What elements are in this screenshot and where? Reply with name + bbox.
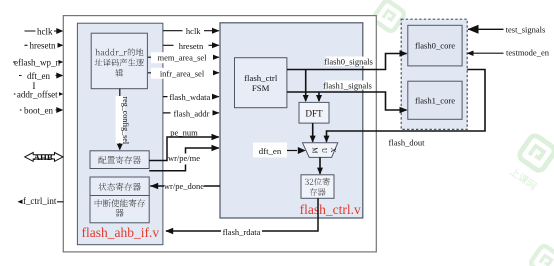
wire mem_area_sel (148, 56, 219, 58)
svg-text:flash0_core: flash0_core (415, 41, 455, 51)
watermark logo top (372, 0, 405, 33)
wire hresetn to flash_ctrl (163, 44, 219, 46)
input boot_en (20, 109, 62, 111)
svg-text:wr/pe/me: wr/pe/me (168, 153, 200, 163)
block flash_ahb_if.v (77, 23, 162, 245)
svg-text:boot_en: boot_en (24, 105, 53, 115)
svg-text:hclk: hclk (186, 26, 201, 36)
svg-text:flash_ahb_if.v: flash_ahb_if.v (81, 225, 159, 240)
svg-text:dft_en: dft_en (259, 146, 282, 156)
AHB bidirectional bus arrow (25, 153, 63, 162)
outer top-level module box (63, 16, 376, 252)
label flash_rdata (221, 227, 262, 238)
svg-text:FSM: FSM (252, 83, 270, 93)
svg-text:dft_en: dft_en (27, 71, 50, 81)
wire hclk to flash_ctrl (163, 30, 219, 32)
svg-text:infr_area_sel: infr_area_sel (160, 68, 205, 78)
label reg_config_sel (116, 96, 125, 143)
block flash1_core (408, 81, 462, 119)
output f_ctrl_int (26, 201, 64, 203)
wire flash0 tap to DFT (305, 70, 307, 102)
svg-text:M: M (311, 147, 318, 153)
wire flash_rdata (166, 198, 318, 231)
input hresetn (25, 44, 63, 46)
svg-text:mem_area_sel: mem_area_sel (157, 53, 207, 63)
svg-text:flash_dout: flash_dout (389, 137, 426, 147)
svg-text:flash_wdata: flash_wdata (169, 92, 210, 102)
svg-text:hclk: hclk (37, 26, 53, 36)
wire wr/pe_done (150, 185, 220, 187)
label wr/pe/me (169, 154, 199, 165)
wire flash_dout return (327, 70, 486, 142)
svg-text:U: U (320, 148, 327, 153)
wire pe_num (149, 137, 219, 161)
wire DFT to mux (312, 123, 314, 142)
svg-text:flash_ctrl: flash_ctrl (244, 73, 278, 83)
svg-text:reg_config_sel: reg_config_sel (121, 97, 130, 145)
wire flash0_signals (287, 54, 407, 70)
input eflash_wp_n (13, 61, 62, 63)
wire flash_wdata (163, 96, 219, 98)
svg-text:flash_addr: flash_addr (174, 108, 210, 118)
svg-text:X: X (329, 148, 336, 153)
svg-text:flash_ctrl.v: flash_ctrl.v (300, 202, 361, 217)
svg-text:pe_num: pe_num (170, 127, 198, 137)
block flash_ctrl FSM (235, 58, 287, 108)
svg-text:DFT: DFT (305, 109, 323, 119)
mux (303, 143, 338, 158)
svg-text:addr_offset: addr_offset (17, 89, 58, 99)
label box dft_en (253, 143, 287, 158)
input hclk (25, 30, 63, 32)
svg-text:eflash_wp_n: eflash_wp_n (14, 57, 60, 67)
label flash0_signals (326, 57, 372, 67)
wire mux to 32-bit register (319, 157, 321, 173)
block haddr_r address decode logic (91, 33, 147, 88)
watermark logo bottom-right (529, 244, 554, 266)
block DFT (299, 102, 329, 123)
svg-text:flash_rdata: flash_rdata (223, 227, 261, 237)
block flash0_core (408, 25, 462, 66)
wire flash1_signals (287, 92, 407, 110)
wire flash1 tap to DFT (318, 92, 320, 101)
svg-text:flash1_core: flash1_core (415, 96, 455, 106)
svg-text:test_signals: test_signals (506, 24, 546, 34)
watermark logo right (518, 134, 554, 173)
register box interrupt-enable (90, 196, 149, 223)
input test_signals (468, 28, 548, 30)
wire reg_config_sel (119, 89, 121, 150)
svg-text:hresetn: hresetn (30, 41, 56, 51)
label flash1_signals (326, 81, 370, 90)
wire infr_area_sel (148, 72, 219, 74)
input testmode_en (468, 52, 548, 54)
register box 32-bit (301, 175, 334, 199)
svg-text:flash1_signals: flash1_signals (323, 80, 372, 90)
wire wr/pe/me (149, 148, 219, 171)
wire dft_en to mux (287, 150, 297, 152)
svg-text:AHB: AHB (34, 152, 53, 162)
svg-text:testmode_en: testmode_en (506, 47, 550, 57)
svg-text:wr/pe_done: wr/pe_done (164, 181, 204, 191)
block eflash macro dashed container (401, 19, 467, 129)
input addr_offset (14, 93, 62, 95)
register box status (90, 177, 149, 196)
input dft_en (19, 75, 62, 77)
wire flash_addr (163, 112, 219, 114)
svg-text:hresetn: hresetn (179, 41, 204, 51)
block flash_ctrl.v (220, 23, 363, 218)
svg-text:flash0_signals: flash0_signals (324, 56, 373, 66)
svg-text:f_ctrl_int: f_ctrl_int (23, 196, 57, 206)
register box config (90, 151, 149, 169)
label wr/pe_done (164, 181, 204, 192)
